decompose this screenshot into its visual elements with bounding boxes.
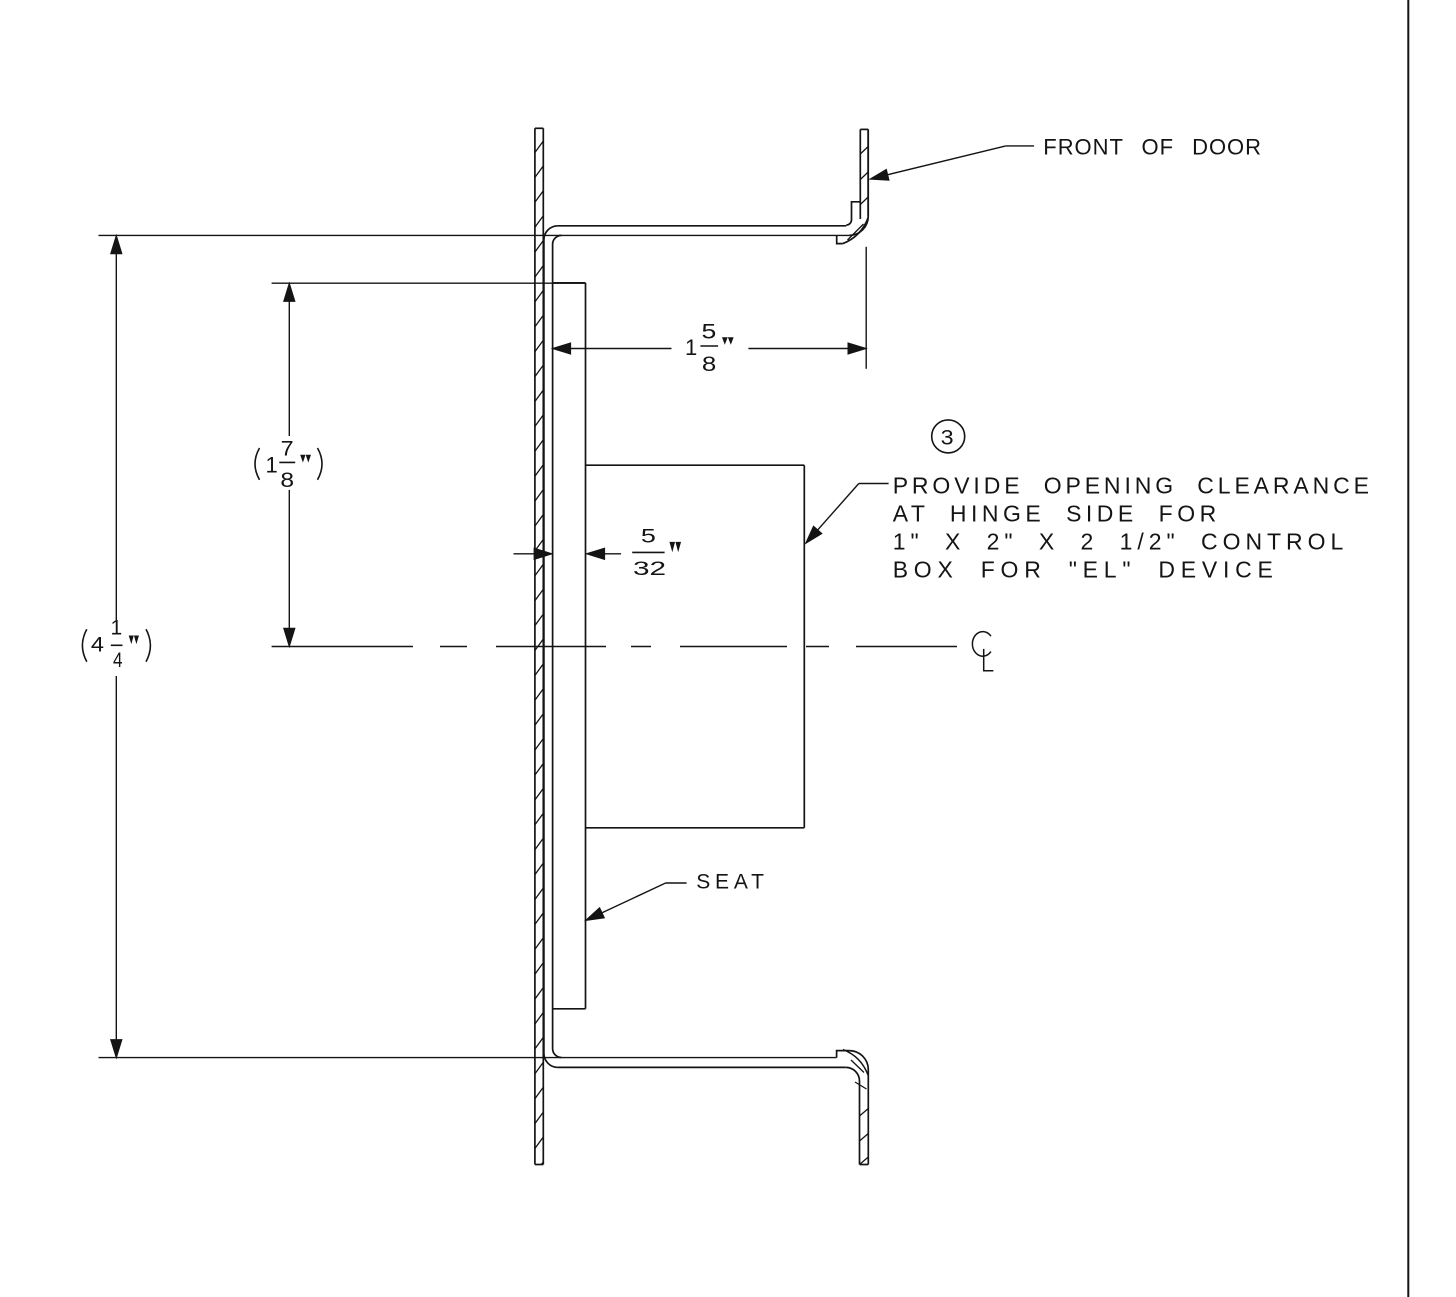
dimension 1 5/8 line with arrows (552, 343, 866, 354)
label FRONT OF DOOR (1043, 134, 1261, 159)
drawing border right edge (1407, 0, 1409, 1297)
dimension 5/32 arrows (514, 548, 622, 559)
leader to seat (583, 883, 686, 926)
centerline CL symbol (972, 632, 993, 671)
door top return bottom surface + (4 1/4) top extension line (99, 129, 869, 235)
svg-text:3: 3 (941, 426, 954, 449)
leader to control box clearance note (801, 484, 888, 548)
top-right bend hem detail (837, 218, 868, 244)
svg-text:PROVIDE OPENING CLEARANCE: PROVIDE OPENING CLEARANCE (893, 473, 1369, 499)
svg-text:8: 8 (280, 469, 294, 492)
front-of-door bottom edge bar hatch (843, 1050, 868, 1165)
dimension 1 5/8 right extension line (865, 247, 867, 369)
svg-text:1: 1 (111, 617, 123, 640)
door top return top surface (558, 202, 860, 226)
frame bar (hatched plate) (535, 116, 543, 1173)
door bottom return bottom surface (558, 1067, 860, 1164)
svg-text:5: 5 (702, 321, 717, 344)
dimension 5/32 text (632, 526, 680, 580)
note text line 3 (893, 528, 1344, 554)
dimension (1 7/8) vertical line with arrows (284, 283, 295, 646)
svg-text:FRONT OF DOOR: FRONT OF DOOR (1043, 134, 1261, 159)
dimension (4 1/4) vertical line with arrows (111, 236, 122, 1058)
svg-text:1: 1 (685, 335, 697, 360)
svg-text:BOX FOR "EL" DEVICE: BOX FOR "EL" DEVICE (893, 556, 1273, 582)
svg-text:5: 5 (641, 526, 656, 547)
centerline (dash-dot) (272, 646, 957, 648)
svg-text:4: 4 (113, 649, 123, 672)
label SEAT (696, 870, 764, 893)
control box outline (586, 465, 805, 828)
svg-text:7: 7 (281, 438, 294, 461)
dimension (1 7/8) extension line at seat top (272, 282, 586, 284)
note text line 1 (893, 473, 1369, 499)
door back skin outer surface (544, 226, 558, 1068)
svg-text:AT HINGE SIDE FOR: AT HINGE SIDE FOR (893, 501, 1216, 527)
svg-text:1: 1 (266, 453, 278, 478)
seat plate (553, 283, 586, 1009)
leader to front of door (869, 146, 1034, 185)
svg-text:32: 32 (633, 559, 666, 580)
note text line 4 (893, 556, 1273, 582)
front-of-door top edge bar (hatched) (860, 129, 868, 219)
svg-text:8: 8 (702, 353, 716, 376)
svg-text:SEAT: SEAT (696, 870, 764, 893)
svg-text:1" X 2" X 2 1/2" CONTROL: 1" X 2" X 2 1/2" CONTROL (893, 528, 1344, 554)
door back skin inner surface (553, 235, 562, 1057)
dimension (4 1/4) text (82, 617, 150, 672)
door bottom return top surface + (4 1/4) bottom extension line (99, 1051, 869, 1165)
dimension 1 5/8 text (685, 321, 733, 377)
note item number circled 3 (932, 420, 965, 453)
dimension (1 7/8) text (255, 438, 322, 492)
note text line 2 (893, 501, 1216, 527)
svg-text:4: 4 (91, 633, 104, 656)
